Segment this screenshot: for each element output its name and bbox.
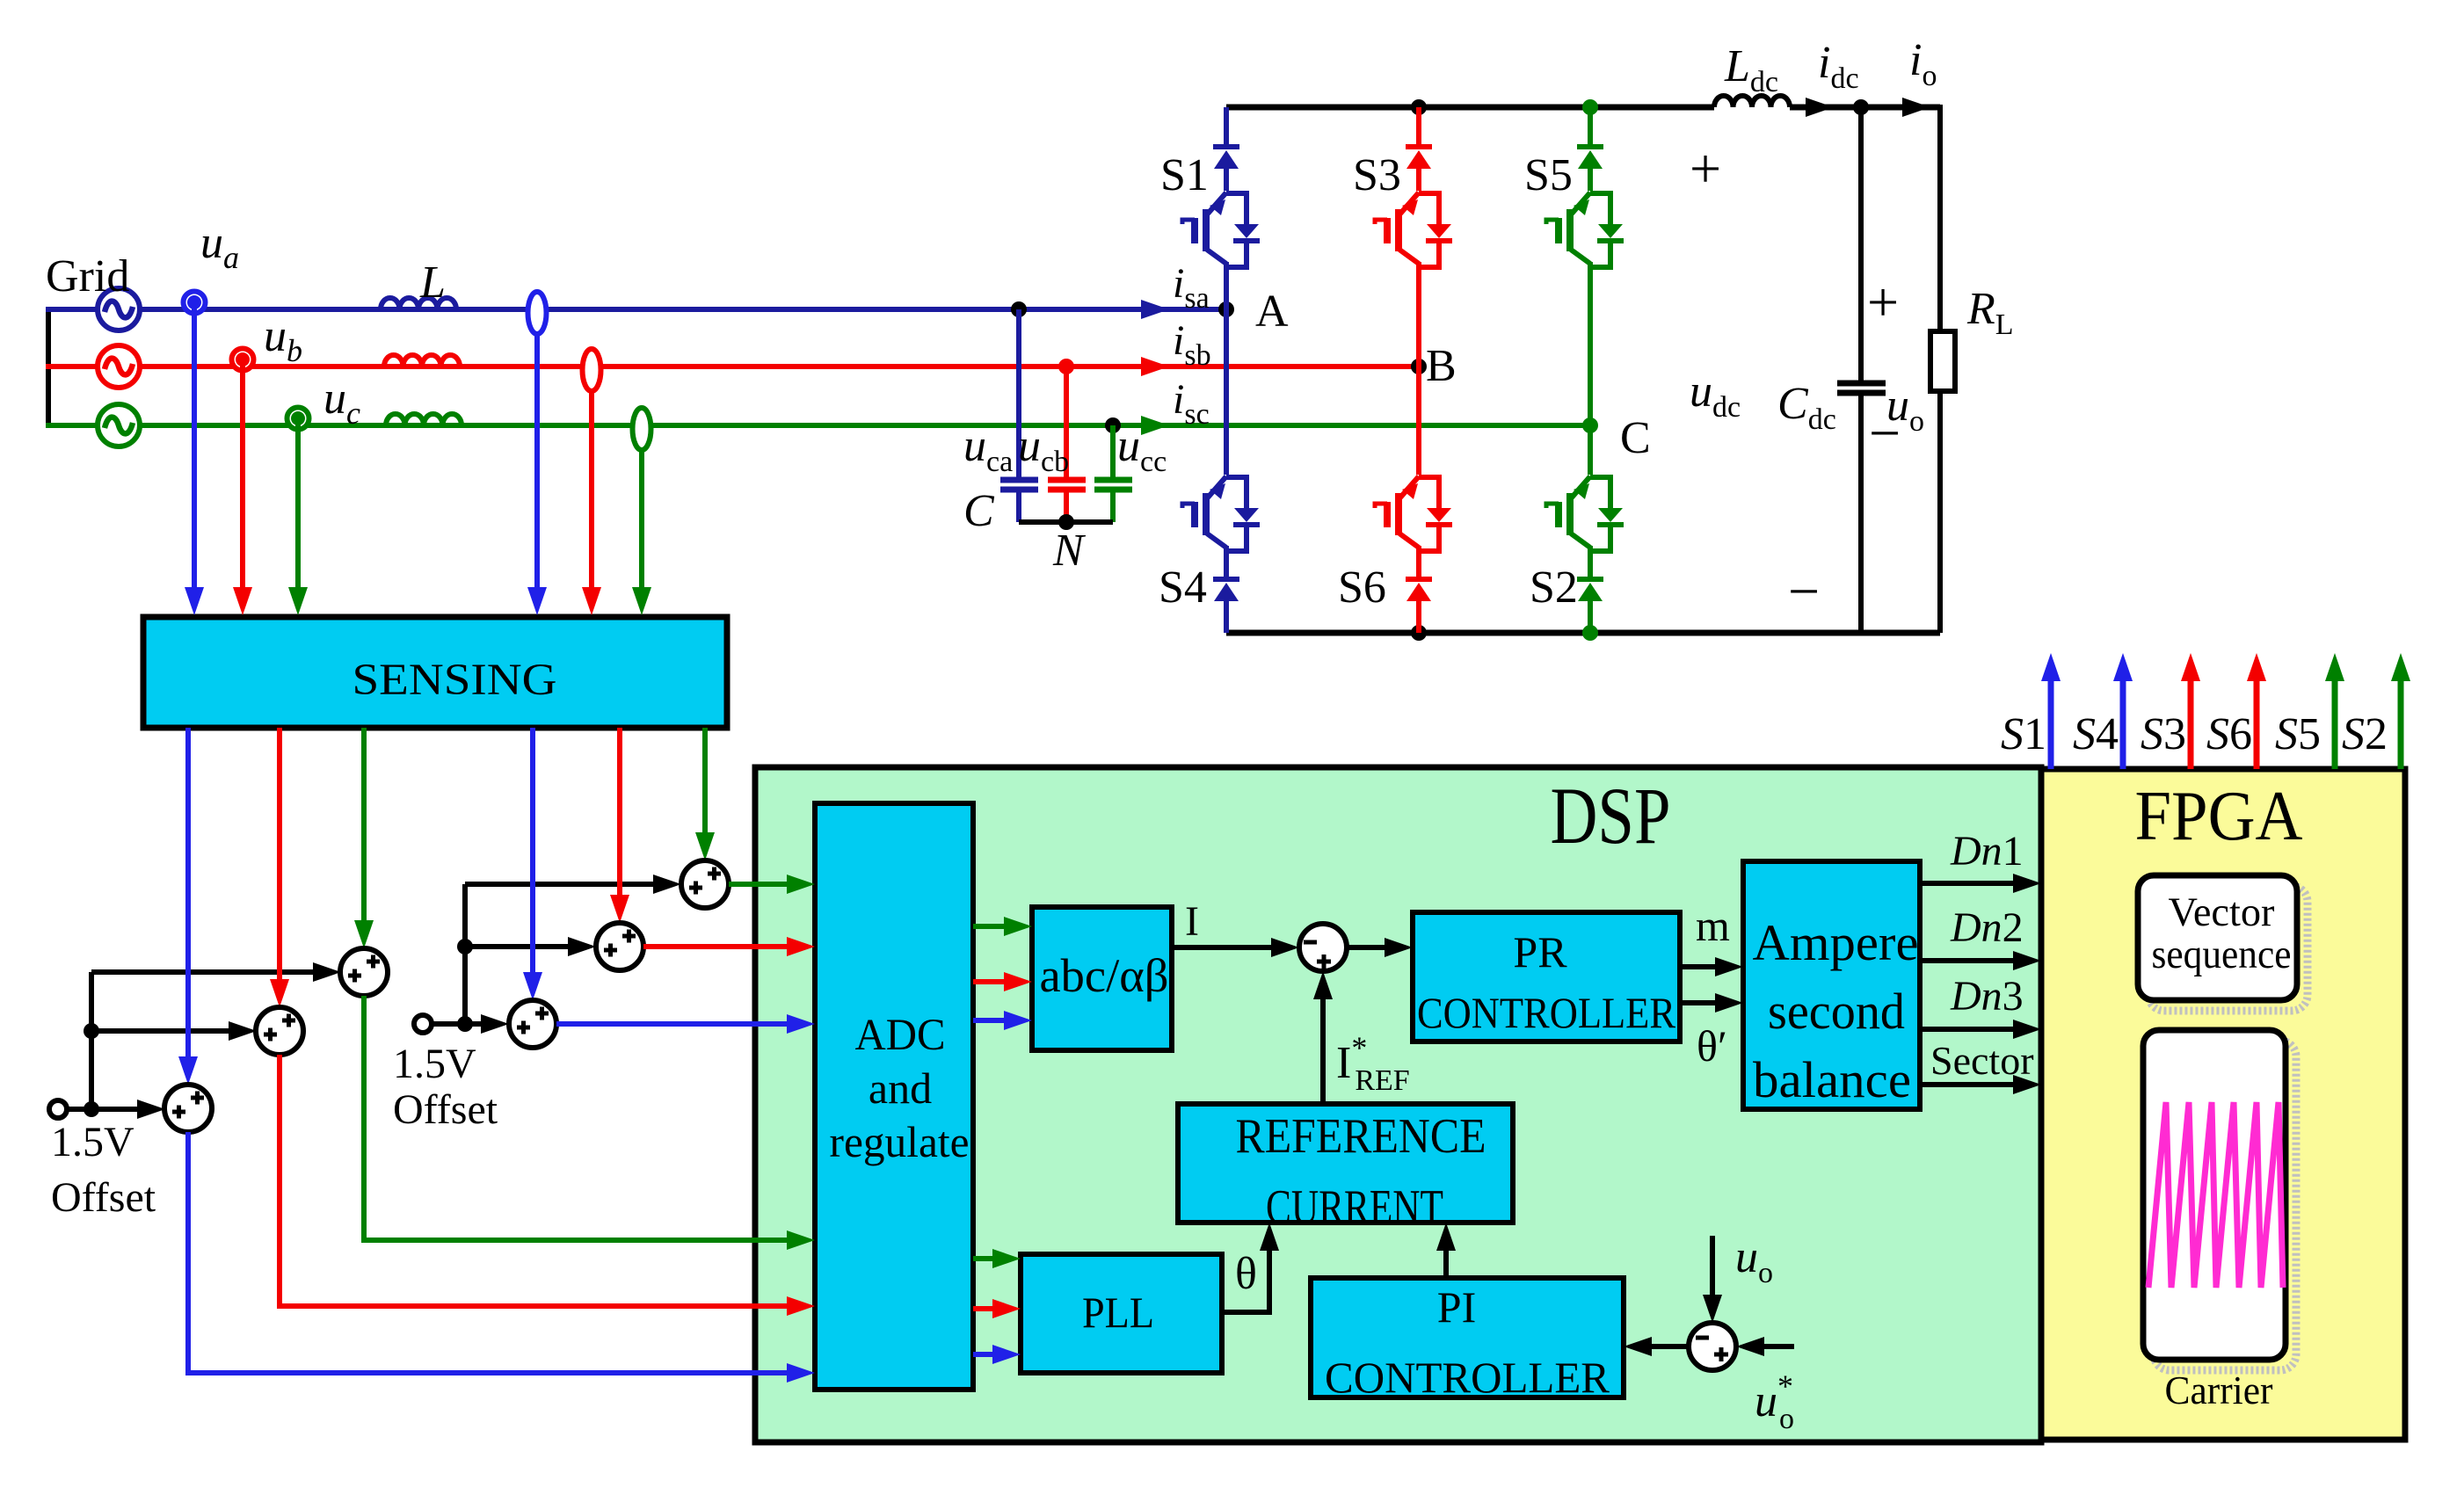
- transistor S3: [1375, 192, 1452, 270]
- node B: [1411, 359, 1427, 374]
- capacitor uca: [1000, 480, 1038, 490]
- current arrow isb: [1141, 357, 1169, 376]
- wire adc to abc red: [973, 972, 1032, 991]
- wire isc to adc: [729, 875, 815, 894]
- wire ua to sensing: [185, 302, 204, 615]
- wire summer to PR: [1347, 938, 1413, 957]
- current arrow isc: [1141, 416, 1169, 435]
- svg-text:S4: S4: [1159, 563, 1207, 613]
- ac source ua: [98, 288, 140, 330]
- node offset1 junction low: [84, 1101, 99, 1117]
- svg-text:+: +: [1867, 271, 1899, 333]
- wire offset1 to summer a: [67, 1100, 165, 1119]
- wire summer to pi: [1624, 1337, 1689, 1356]
- node top leg b: [1411, 99, 1427, 115]
- wire sensing out isb: [610, 728, 629, 923]
- svg-text:S3: S3: [2141, 709, 2186, 759]
- neutral bracket wire: [46, 309, 51, 425]
- summer current error: [1299, 924, 1347, 971]
- transistor S1: [1182, 192, 1260, 270]
- wire uc to adc: [364, 996, 815, 1250]
- node bottom leg b: [1411, 625, 1427, 641]
- summer offset f: [681, 860, 729, 908]
- ADC and regulate block: [815, 803, 973, 1390]
- probe tap ub: [232, 349, 254, 371]
- node cap b: [1058, 359, 1074, 374]
- svg-text:Dn1: Dn1: [1950, 828, 2024, 875]
- svg-text:SENSING: SENSING: [353, 656, 557, 705]
- wire abc to summer I: [1172, 938, 1299, 957]
- svg-text:Carrier: Carrier: [2165, 1368, 2273, 1412]
- node A: [1218, 301, 1234, 317]
- node offset2 junction low: [457, 1016, 473, 1032]
- svg-text:S2: S2: [1530, 563, 1578, 613]
- svg-text:Dn3: Dn3: [1950, 973, 2024, 1020]
- svg-text:CONTROLLER: CONTROLLER: [1417, 988, 1676, 1037]
- svg-text:C: C: [1620, 413, 1651, 463]
- transistor S2: [1546, 476, 1624, 554]
- Vector sequence box shadow: [2148, 886, 2308, 1011]
- abc/alphabeta block: [1032, 907, 1172, 1050]
- svg-text:second: second: [1768, 983, 1905, 1040]
- svg-text:Grid: Grid: [46, 251, 129, 301]
- svg-text:I: I: [1185, 898, 1199, 945]
- node bottom leg c: [1582, 625, 1598, 641]
- wire offset1 to summer c: [91, 962, 341, 982]
- wire uc to sensing: [288, 418, 308, 615]
- svg-text:sequence: sequence: [2152, 932, 2292, 977]
- diode series bottom leg a: [1213, 579, 1239, 601]
- inductor L phase c: [386, 414, 462, 425]
- wire ub to sensing: [233, 359, 252, 615]
- wire pll to reference current: [1222, 1223, 1279, 1312]
- wire sensing out ub: [270, 728, 289, 1007]
- svg-text:−: −: [1869, 402, 1901, 464]
- wire isb to sensing: [582, 389, 601, 615]
- wire offset1 riser: [89, 972, 94, 1109]
- offset terminal 1: [49, 1100, 67, 1118]
- wire ampere to fpga Dn3: [1920, 1020, 2041, 1039]
- node C: [1582, 417, 1598, 433]
- svg-text:C: C: [963, 486, 995, 536]
- wire phase a: [46, 307, 1226, 312]
- svg-text:1.5V: 1.5V: [393, 1041, 476, 1087]
- SENSING block: [143, 617, 727, 728]
- svg-text:S1: S1: [1160, 150, 1209, 200]
- Vector sequence box: [2138, 875, 2297, 1000]
- Ampere second balance block: [1743, 861, 1920, 1109]
- svg-text:θ: θ: [1235, 1249, 1257, 1299]
- wire ampere to fpga Sector: [1920, 1075, 2041, 1094]
- svg-text:B: B: [1426, 341, 1457, 391]
- wire RL branch upper: [1930, 107, 1940, 331]
- node cap c: [1105, 417, 1121, 433]
- svg-text:regulate: regulate: [830, 1117, 970, 1166]
- gate signal arrow S5: [2325, 653, 2344, 769]
- Carrier box shadow: [2154, 1041, 2296, 1370]
- wire isc to sensing: [632, 448, 651, 615]
- summer voltage error: [1689, 1323, 1736, 1370]
- svg-text:FPGA: FPGA: [2135, 778, 2303, 855]
- svg-text:+: +: [1690, 137, 1721, 200]
- node dc junction: [1853, 99, 1869, 115]
- svg-text:S1: S1: [2001, 709, 2046, 759]
- wire isa to sensing: [527, 332, 547, 615]
- current sensor phase a: [528, 292, 547, 334]
- gate signal arrow S6: [2247, 653, 2266, 769]
- current sensor phase c: [633, 408, 651, 450]
- probe tap ua: [184, 292, 206, 314]
- transistor S5: [1546, 192, 1624, 270]
- Carrier box: [2143, 1030, 2286, 1360]
- summer offset b: [256, 1007, 303, 1055]
- wire PR to ampere m: [1680, 957, 1743, 976]
- svg-text:and: and: [869, 1063, 932, 1113]
- wire PR to ampere theta: [1680, 993, 1743, 1013]
- transistor S6: [1375, 476, 1452, 554]
- FPGA block: [2041, 769, 2405, 1440]
- svg-text:S4: S4: [2073, 709, 2119, 759]
- svg-text:abc/αβ: abc/αβ: [1040, 949, 1169, 1002]
- wire offset2 riser: [462, 884, 468, 1024]
- resistor RL: [1930, 331, 1955, 391]
- diode series top leg a: [1213, 147, 1239, 169]
- node N: [1058, 514, 1074, 530]
- wire phase b: [46, 364, 1419, 369]
- inductor L phase b: [384, 355, 460, 367]
- wire Cdc lower: [1858, 393, 1864, 633]
- wire ampere to fpga Dn2: [1920, 951, 2041, 970]
- svg-text:ADC: ADC: [855, 1011, 946, 1060]
- current arrow idc: [1806, 98, 1834, 117]
- offset terminal 2: [414, 1015, 432, 1033]
- svg-text:Offset: Offset: [393, 1086, 498, 1133]
- wire ampere to fpga Dn1: [1920, 874, 2041, 893]
- svg-text:CURRENT: CURRENT: [1266, 1180, 1443, 1235]
- wire isa to adc: [556, 1014, 815, 1034]
- PI CONTROLLER block: [1311, 1278, 1624, 1397]
- wire sensing out isa: [523, 728, 542, 1000]
- wire offset2 to summer f: [465, 875, 681, 894]
- capacitor Cdc: [1837, 383, 1886, 393]
- wire uo into summer: [1703, 1236, 1722, 1323]
- transistor S4: [1182, 476, 1260, 554]
- inductor Ldc: [1714, 96, 1790, 107]
- dc positive bus: [1226, 105, 1714, 111]
- wire offset2 to summer d: [432, 1014, 509, 1034]
- wire phase c: [46, 423, 1590, 428]
- wire adc to pll green: [973, 1249, 1021, 1268]
- wire uoref into summer: [1736, 1337, 1794, 1356]
- node offset1 junction mid: [84, 1023, 99, 1039]
- wire offset1 to summer b: [91, 1021, 257, 1041]
- svg-text:θ′: θ′: [1697, 1021, 1727, 1071]
- PR CONTROLLER block: [1413, 912, 1680, 1042]
- svg-text:Dn2: Dn2: [1950, 904, 2024, 951]
- wire cap a upper: [1016, 309, 1021, 477]
- diode series bottom leg c: [1577, 579, 1603, 601]
- node offset2 junction mid: [457, 939, 473, 954]
- gate signal arrow S1: [2041, 653, 2061, 769]
- summer offset e: [596, 923, 643, 970]
- wire isb to adc: [643, 937, 815, 956]
- gate signal arrow S3: [2181, 653, 2200, 769]
- wire adc to pll red: [973, 1299, 1021, 1318]
- summer offset d: [509, 1000, 556, 1048]
- wire ua to adc: [188, 1132, 815, 1383]
- gate signal arrow S4: [2113, 653, 2133, 769]
- REFERENCE CURRENT block: [1178, 1104, 1513, 1223]
- current arrow isa: [1141, 300, 1169, 319]
- wire leg c: [1588, 107, 1593, 633]
- capacitor ucb: [1048, 480, 1086, 490]
- node cap a: [1011, 301, 1027, 317]
- summer offset c: [340, 948, 388, 996]
- svg-text:S5: S5: [2275, 709, 2321, 759]
- wire ub to adc: [280, 1055, 815, 1316]
- wire leg a: [1224, 107, 1229, 633]
- wire adc to abc blue: [973, 1011, 1032, 1030]
- summer offset a: [164, 1085, 212, 1132]
- wire Iref to summer: [1313, 971, 1333, 1104]
- wire sensing out isc: [695, 728, 715, 860]
- wire leg b: [1416, 107, 1421, 633]
- svg-text:CONTROLLER: CONTROLLER: [1325, 1353, 1610, 1402]
- svg-text:S2: S2: [2342, 709, 2388, 759]
- wire offset2 to summer e: [465, 937, 596, 956]
- wire pi to reference current: [1436, 1223, 1456, 1278]
- svg-text:PLL: PLL: [1082, 1288, 1154, 1337]
- svg-text:REFERENCE: REFERENCE: [1236, 1109, 1486, 1164]
- svg-text:S5: S5: [1524, 150, 1573, 200]
- wire cap c upper: [1110, 425, 1116, 477]
- svg-text:DSP: DSP: [1551, 771, 1671, 860]
- wire cap a lower: [1016, 490, 1021, 522]
- svg-text:L: L: [419, 258, 446, 308]
- dc negative bus: [1226, 630, 1940, 636]
- svg-text:Offset: Offset: [51, 1174, 156, 1221]
- current arrow io: [1902, 98, 1930, 117]
- ac source ub: [98, 345, 140, 388]
- svg-text:N: N: [1052, 526, 1087, 576]
- ac source uc: [98, 404, 140, 446]
- wire sensing out uc: [354, 728, 374, 948]
- diode series bottom leg b: [1406, 579, 1432, 601]
- svg-text:S6: S6: [1338, 563, 1386, 613]
- DSP block: [755, 767, 2041, 1442]
- carrier sawtooth waveform: [2148, 1102, 2283, 1288]
- svg-text:Ampere: Ampere: [1753, 914, 1919, 971]
- current sensor phase b: [583, 349, 601, 391]
- wire adc to abc green: [973, 917, 1032, 936]
- svg-text:S6: S6: [2206, 709, 2252, 759]
- wire RL branch lower: [1937, 391, 1943, 633]
- svg-text:1.5V: 1.5V: [51, 1119, 134, 1165]
- svg-text:Sector: Sector: [1930, 1038, 2034, 1083]
- wire sensing out ua: [178, 728, 198, 1085]
- svg-text:A: A: [1255, 287, 1289, 337]
- wire cap c lower: [1110, 490, 1116, 522]
- diode series top leg b: [1406, 147, 1432, 169]
- PLL block: [1021, 1254, 1222, 1373]
- diode series top leg c: [1577, 147, 1603, 169]
- svg-text:−: −: [1788, 560, 1820, 622]
- svg-text:PR: PR: [1513, 927, 1567, 976]
- wire Cdc upper: [1858, 107, 1864, 381]
- svg-text:PI: PI: [1437, 1282, 1476, 1332]
- svg-text:m: m: [1696, 901, 1730, 950]
- capacitor ucc: [1094, 480, 1132, 490]
- svg-text:S3: S3: [1353, 150, 1401, 200]
- wire dc link: [1790, 105, 1940, 111]
- wire adc to pll blue: [973, 1345, 1021, 1364]
- wire cap b lower: [1064, 490, 1069, 522]
- probe tap uc: [287, 408, 309, 430]
- inductor L phase a: [381, 298, 456, 309]
- gate signal arrow S2: [2391, 653, 2410, 769]
- node top leg c: [1582, 99, 1598, 115]
- svg-text:u*o: u*o: [1755, 1368, 1794, 1435]
- neutral bus N: [1019, 519, 1113, 525]
- wire cap b upper: [1064, 367, 1069, 477]
- svg-text:Vector: Vector: [2169, 889, 2275, 935]
- svg-text:balance: balance: [1753, 1051, 1911, 1108]
